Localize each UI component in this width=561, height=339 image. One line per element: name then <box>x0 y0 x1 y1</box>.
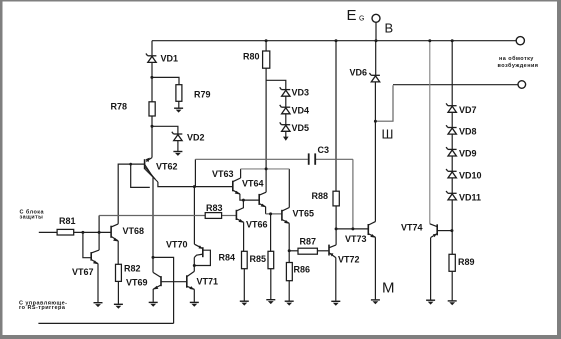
svg-text:VT62: VT62 <box>156 162 178 172</box>
wire rail down to VD6 <box>375 41 377 75</box>
svg-text:R79: R79 <box>194 90 211 100</box>
ground VT67 emitter <box>94 303 103 307</box>
node R80 rail <box>265 39 268 42</box>
resistor R80 <box>263 51 270 68</box>
wire R87 left lead <box>289 250 298 252</box>
diode VD6 <box>369 73 380 82</box>
ground VT71 emitter <box>190 302 199 306</box>
ground below VD2 <box>173 152 182 156</box>
resistor R87 <box>298 248 317 254</box>
svg-text:на обмотку: на обмотку <box>499 55 534 62</box>
svg-text:го RS-триггера: го RS-триггера <box>19 305 66 311</box>
ground VT69 emitter <box>149 302 158 306</box>
wire VT63 collector up to link line <box>240 169 242 178</box>
node R78 VD2 <box>151 125 154 128</box>
node R81 branch <box>81 231 84 234</box>
wire VT70 node down to VT71 collector <box>193 258 195 272</box>
wire VD2 to ground <box>177 140 179 151</box>
wire VT73 emitter to ground <box>374 237 376 299</box>
wire VT65 collector up to link line <box>288 169 290 208</box>
wire VD11 to VT74 base node and R89 <box>451 200 453 254</box>
diode VD7 <box>446 103 457 112</box>
wire VT74 base to VD11 R89 node <box>437 230 452 232</box>
svg-text:VT64: VT64 <box>242 179 264 189</box>
wire VT73 base line <box>336 228 368 230</box>
capacitor C3 <box>309 153 316 164</box>
svg-text:G: G <box>359 15 364 22</box>
svg-text:VT70: VT70 <box>166 240 188 250</box>
diode VD4 <box>280 105 291 114</box>
svg-text:R89: R89 <box>458 257 475 267</box>
wire VT70 collector loop <box>194 250 210 265</box>
svg-text:R81: R81 <box>59 216 76 226</box>
transistor VT64 <box>259 192 266 207</box>
svg-text:R86: R86 <box>294 265 311 275</box>
resistor R85 <box>268 251 274 268</box>
wire terminal line to bottom circle <box>393 84 518 86</box>
ground VT74 emitter <box>426 300 435 304</box>
node VT65 emitter R87 <box>288 249 291 252</box>
wire R85 to ground <box>270 269 272 300</box>
svg-text:C3: C3 <box>318 145 330 155</box>
node VT67 collector crossing <box>98 231 101 234</box>
wire VT72 collector from node <box>335 229 337 245</box>
wire VD4-VD5 <box>285 114 287 125</box>
node R88 rail <box>335 39 338 42</box>
diode VD3 <box>280 87 291 96</box>
wire node to RS-trigger riser <box>153 257 174 323</box>
diode VD8 <box>446 125 457 134</box>
svg-text:R83: R83 <box>206 203 223 213</box>
node EG rail <box>375 39 378 42</box>
wire bottom from RS-trigger <box>38 322 173 324</box>
svg-text:R88: R88 <box>312 191 329 201</box>
wire VT70 base jog down <box>194 254 203 257</box>
wire grey Ш step <box>375 85 393 121</box>
wire grey C3 line right horizontal <box>316 158 353 160</box>
terminal field winding top circle <box>516 37 524 45</box>
wire R81 to VT68 base <box>74 231 111 233</box>
wire VD9-VD10 <box>451 156 453 171</box>
svg-text:VD2: VD2 <box>187 132 205 142</box>
diode VD2 <box>172 132 183 141</box>
resistor R83 <box>205 213 221 219</box>
svg-text:R84: R84 <box>219 253 236 263</box>
wire VD8-VD9 <box>451 134 453 149</box>
svg-text:VD11: VD11 <box>459 192 481 202</box>
wire R80 top from rail <box>265 41 267 51</box>
wire R86 to ground <box>288 281 290 301</box>
node VT74 rail <box>428 39 431 42</box>
resistor R81 <box>57 229 74 235</box>
wire R78 to VT62 emitter <box>151 116 153 158</box>
ground R86 <box>285 301 294 305</box>
wire VT64 emitter down <box>265 207 267 214</box>
node VD1 R79 <box>150 76 153 79</box>
wire R79 to ground <box>178 101 180 107</box>
transistor VT62 <box>145 158 158 182</box>
svg-text:М: М <box>382 279 395 296</box>
wire VT62 collector down to VT69 collector <box>152 177 154 272</box>
transistor VT65 <box>282 208 289 224</box>
svg-text:VT69: VT69 <box>126 278 148 288</box>
wire input from protection block to R81 <box>39 231 57 233</box>
svg-text:VT73: VT73 <box>345 234 367 244</box>
resistor R86 <box>286 263 292 281</box>
node VT62 base loop <box>129 163 132 166</box>
wire rail left end down to VD1 <box>151 41 153 56</box>
node VT74 base <box>450 229 453 232</box>
wire VT69 base to VT71 base <box>161 281 187 283</box>
wire VT68 emitter to R82 <box>117 241 119 264</box>
ground R84 <box>240 301 249 305</box>
wire VD10-VD11 <box>451 178 453 193</box>
diode VD9 <box>446 147 457 156</box>
diode VD10 <box>446 169 457 178</box>
wire VT66 emitter to R84 <box>243 222 245 251</box>
transistor VT63 <box>233 178 241 194</box>
node VD7 rail <box>451 39 454 42</box>
wire R87 right lead to VT72 base <box>317 250 328 252</box>
terminal field winding bottom circle <box>518 81 526 89</box>
wire grey VT65 base segment <box>266 213 282 215</box>
wire VT74 emitter to ground <box>430 237 432 299</box>
svg-text:E: E <box>347 7 357 24</box>
wire R80 bottom long line to VT64 collector <box>265 68 267 192</box>
transistor VT71 <box>187 271 195 289</box>
svg-text:VT74: VT74 <box>401 223 423 233</box>
wire grey link VT63-VT65 collectors <box>241 168 290 170</box>
wire VT62 base loop <box>131 164 150 187</box>
svg-text:VT71: VT71 <box>197 277 219 287</box>
svg-text:VT65: VT65 <box>293 209 315 219</box>
wire grey from rail down to VT74 collector <box>429 41 431 224</box>
wire E_G terminal down to rail <box>375 22 377 40</box>
wire VT71 emitter to ground <box>193 289 195 302</box>
node link R80 line <box>265 167 268 170</box>
wire grey base rail left segment <box>99 215 205 217</box>
wire VD1 to R78 through node <box>151 62 153 102</box>
svg-text:R78: R78 <box>111 102 128 112</box>
svg-text:VD4: VD4 <box>292 105 310 115</box>
svg-text:VD8: VD8 <box>459 127 477 137</box>
wire VT69 emitter to ground <box>152 289 154 302</box>
transistor VT73 <box>368 222 375 238</box>
wire C3 line left corner vertical <box>194 159 196 186</box>
wire VT65 emitter down to R87 R86 node <box>288 223 290 262</box>
wire VT72 emitter to ground <box>335 258 337 301</box>
transistor VT74 PNP mirrored <box>430 224 437 238</box>
wire VT66 collector up to node <box>237 200 243 211</box>
transistor VT72 PNP <box>329 245 336 258</box>
resistor R82 <box>116 264 122 281</box>
resistor R89 <box>449 254 455 271</box>
transistor VT68 <box>111 224 118 241</box>
svg-text:R82: R82 <box>124 264 141 274</box>
ground R82 <box>114 304 123 308</box>
wire VT70 emitter line from node <box>193 187 195 245</box>
svg-text:VD1: VD1 <box>161 54 179 64</box>
wire branch node to VD2 <box>152 126 178 133</box>
wire VD7-VD8 <box>451 112 453 127</box>
transistor VT66 <box>236 210 243 222</box>
svg-text:В: В <box>385 20 394 35</box>
svg-text:возбуждения: возбуждения <box>498 62 539 69</box>
wire VT67 collector vertical <box>98 216 100 251</box>
wire VT63 emitter down and right to VT64 base <box>240 194 259 200</box>
node VD6 Ш <box>374 120 377 123</box>
node VT63 emitter VT66 collector <box>242 199 245 202</box>
wire R82 to ground <box>117 281 119 303</box>
ground R89 <box>448 301 457 305</box>
ground VT72 emitter <box>331 301 340 305</box>
wire top supply rail B <box>152 40 516 42</box>
wire VD5 to arrow end <box>285 131 287 137</box>
wire node down to VT67 base <box>83 232 91 257</box>
wire branch to VD3 chain <box>266 80 286 89</box>
svg-text:VD10: VD10 <box>459 171 482 181</box>
svg-text:VD7: VD7 <box>459 105 477 115</box>
svg-text:Ш: Ш <box>382 127 394 142</box>
diode VD5 <box>280 122 291 131</box>
wire grey C3 line left horizontal <box>195 158 308 160</box>
wire node down to R85 <box>270 214 272 251</box>
svg-text:VT67: VT67 <box>72 267 94 277</box>
svg-text:VT63: VT63 <box>212 169 234 179</box>
wire R84 to ground <box>243 269 245 301</box>
resistor R84 <box>242 251 248 268</box>
transistor VT67 <box>91 250 99 264</box>
node VT70 line <box>193 185 196 188</box>
svg-text:R87: R87 <box>300 237 317 247</box>
svg-text:VT68: VT68 <box>123 226 145 236</box>
wire grey base rail right segment <box>222 215 237 217</box>
svg-text:VT72: VT72 <box>338 255 360 265</box>
diode VD1 <box>146 54 157 63</box>
transistor VT70 PNP diode connected <box>194 244 202 257</box>
terminal E_G circle <box>372 14 380 22</box>
wire R88 bottom to VT73 base node <box>335 206 337 229</box>
wire C3 corner vertical grey <box>352 159 354 229</box>
node C3 corner base <box>351 227 354 230</box>
wire VT67 emitter to ground <box>97 264 99 303</box>
ground below R79 <box>174 108 183 112</box>
node VT62 collector branch <box>152 256 155 259</box>
node VT73 base left <box>335 227 338 230</box>
ground R85 <box>266 300 275 304</box>
wire VT68 collector up to VT62 base <box>118 164 144 224</box>
svg-text:VD9: VD9 <box>459 149 477 159</box>
svg-text:VD3: VD3 <box>292 87 310 97</box>
wire VD6 down to VT73 collector (Ш line) <box>374 82 376 222</box>
wire R88 line from rail down <box>335 41 337 192</box>
resistor R78 <box>149 102 155 116</box>
svg-text:R80: R80 <box>243 51 260 61</box>
wire VD3-VD4 <box>285 96 287 107</box>
node VT64 emitter R85 <box>269 212 272 215</box>
resistor R79 <box>176 85 182 102</box>
wire R89 to ground <box>451 271 453 300</box>
svg-text:R85: R85 <box>250 254 267 264</box>
wire VD7 chain from rail <box>451 41 453 106</box>
svg-text:защиты: защиты <box>20 215 44 221</box>
ground VT73 emitter <box>371 300 380 304</box>
diode VD11 <box>446 191 457 200</box>
transistor VT69 mirrored <box>153 273 161 289</box>
node VT70 bottom <box>193 264 196 267</box>
wire VT62 collector branch to VT63 base <box>158 182 233 187</box>
wire branch node to R79 <box>152 77 179 84</box>
node dots <box>81 39 453 267</box>
arrow below VD5 chain <box>283 137 289 141</box>
resistor R88 <box>333 191 339 206</box>
svg-text:VD5: VD5 <box>292 123 310 133</box>
svg-text:VD6: VD6 <box>350 68 368 78</box>
svg-text:VT66: VT66 <box>246 219 268 229</box>
